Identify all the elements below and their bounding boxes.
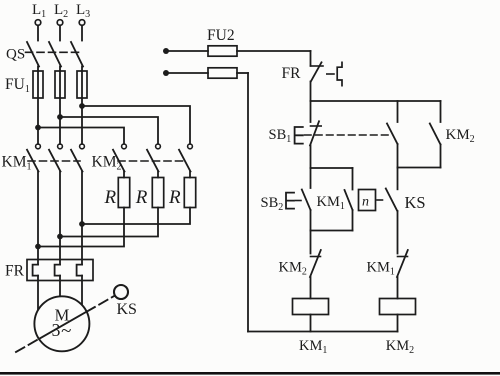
wire L2 drop (59, 25, 61, 40)
resistor R2 (152, 172, 163, 208)
coil KM2 (380, 299, 416, 315)
wire QS to FU1 pole 1 (37, 67, 39, 72)
wire KM1 pole2 leg (59, 172, 61, 265)
svg-text:n: n (362, 195, 369, 210)
wire KM1 pole3 leg (81, 172, 83, 265)
wire join parallel pair (398, 167, 441, 169)
contact FR NC (311, 51, 343, 86)
wire left control rail (247, 73, 249, 332)
coil KM1 (293, 299, 329, 315)
contactor KM2 linkage dashed (118, 160, 186, 162)
wire n to KS dashed (377, 199, 384, 201)
svg-text:FR: FR (282, 65, 302, 82)
svg-text:KS: KS (405, 193, 426, 212)
wire parallel top (311, 167, 353, 169)
switch QS linkage dashed (26, 51, 81, 53)
fuse FU1 pole 1 (33, 71, 43, 98)
shaft coupling dashed line upper (87, 296, 115, 312)
contact KM2 NC interlock (310, 231, 321, 299)
wire coil KM1 to rail (310, 315, 312, 332)
resistor R1 (118, 172, 129, 208)
contactor KM2 main contact 2 (147, 144, 160, 172)
switch QS pole 3 blade (71, 42, 83, 67)
wire R3 bypass to pole3 (82, 208, 190, 225)
wire coil KM2 to rail (397, 315, 399, 332)
svg-text:R: R (104, 187, 117, 208)
wire R1 bypass to pole1 (38, 208, 124, 247)
svg-text:QS: QS (6, 47, 25, 63)
contactor KM1 main contact 3 (71, 144, 84, 172)
contact KM2 aux NO (430, 101, 441, 168)
thermal relay FR heater 1 (33, 265, 38, 276)
thermal relay FR heater 3 (77, 265, 82, 276)
wire R2 bypass to pole2 (60, 208, 158, 237)
svg-text:KS: KS (117, 301, 137, 318)
fuse FU1 pole 3 (77, 71, 87, 98)
wire control top bus (311, 100, 441, 102)
resistor R3 (184, 172, 195, 208)
wire FU1 to KM1 contacts pole 1 (37, 98, 39, 144)
node junction dot pole3 tap (79, 103, 85, 109)
contact KM1 aux NO self-hold (345, 168, 353, 231)
switch QS pole 2 blade (49, 42, 61, 67)
thermal relay FR box (27, 260, 93, 281)
contact KS NO (386, 168, 398, 254)
node L2 (57, 20, 63, 26)
contactor KM2 main contact 1 (113, 144, 126, 172)
shaft line inside motor (39, 312, 87, 339)
svg-text:R: R (135, 187, 148, 208)
svg-text:~: ~ (61, 321, 71, 342)
node dot bypass pole3 (79, 221, 85, 227)
wire FU1 to KM1 contacts pole 3 (81, 98, 83, 144)
contactor KM1 linkage dashed (28, 160, 80, 162)
wire tap pole1 to KM2 pole1 (38, 128, 124, 144)
wire bottom rail (248, 331, 398, 333)
wire tap pole2 to KM2 pole2 (60, 117, 158, 144)
button SB1 NC contact (295, 101, 322, 146)
wire L1 drop (37, 25, 39, 40)
contactor KM1 main contact 1 (27, 144, 40, 172)
svg-text:FU2: FU2 (207, 27, 235, 44)
wire FR to motor 3 (81, 276, 83, 306)
fuse FU2 upper (166, 46, 311, 56)
switch QS pole 1 blade (27, 42, 39, 67)
bottom bar (0, 372, 500, 375)
svg-text:R: R (168, 187, 181, 208)
wire FR to motor 1 (37, 276, 39, 311)
fuse FU1 pole 2 (55, 71, 65, 98)
fuse FU2 lower (166, 68, 248, 78)
motor M circle (34, 296, 89, 351)
shaft coupling dashed line lower (16, 339, 39, 352)
node junction dot pole1 tap (35, 125, 41, 131)
wire FU1 to KM1 contacts pole 2 (59, 98, 61, 144)
contactor KM2 main contact 3 (179, 144, 192, 172)
speed relay element n box (359, 190, 376, 211)
button SB2 NO contact (286, 168, 311, 231)
node L3 (79, 20, 85, 26)
wire QS to FU1 pole 2 (59, 67, 61, 72)
contact KM1 NC interlock (397, 250, 408, 299)
node feed dot upper (163, 48, 169, 54)
contact SB1-NO (plugging) (387, 101, 398, 168)
wire SB1 to parallel block (310, 146, 312, 169)
node L1 (35, 20, 41, 26)
wire FR to motor 2 (59, 276, 61, 297)
thermal relay FR heater 2 (55, 265, 60, 276)
node dot bypass pole1 (35, 244, 41, 250)
svg-text:FR: FR (5, 263, 25, 280)
node dot bypass pole2 (57, 234, 63, 240)
wire QS to FU1 pole 3 (81, 67, 83, 72)
speed switch KS circle (114, 285, 128, 299)
wire KM1 pole1 leg (37, 172, 39, 265)
wire SB1 linkage dashed (305, 134, 392, 136)
wire L3 drop (81, 25, 83, 40)
svg-text:3: 3 (52, 320, 61, 340)
node feed dot lower (163, 70, 169, 76)
contactor KM1 main contact 2 (49, 144, 62, 172)
node junction dot pole2 tap (57, 114, 63, 120)
wire tap pole3 to KM2 pole3 (82, 106, 190, 144)
wire parallel bottom (311, 230, 353, 232)
wire FR contact to bus (310, 82, 312, 102)
